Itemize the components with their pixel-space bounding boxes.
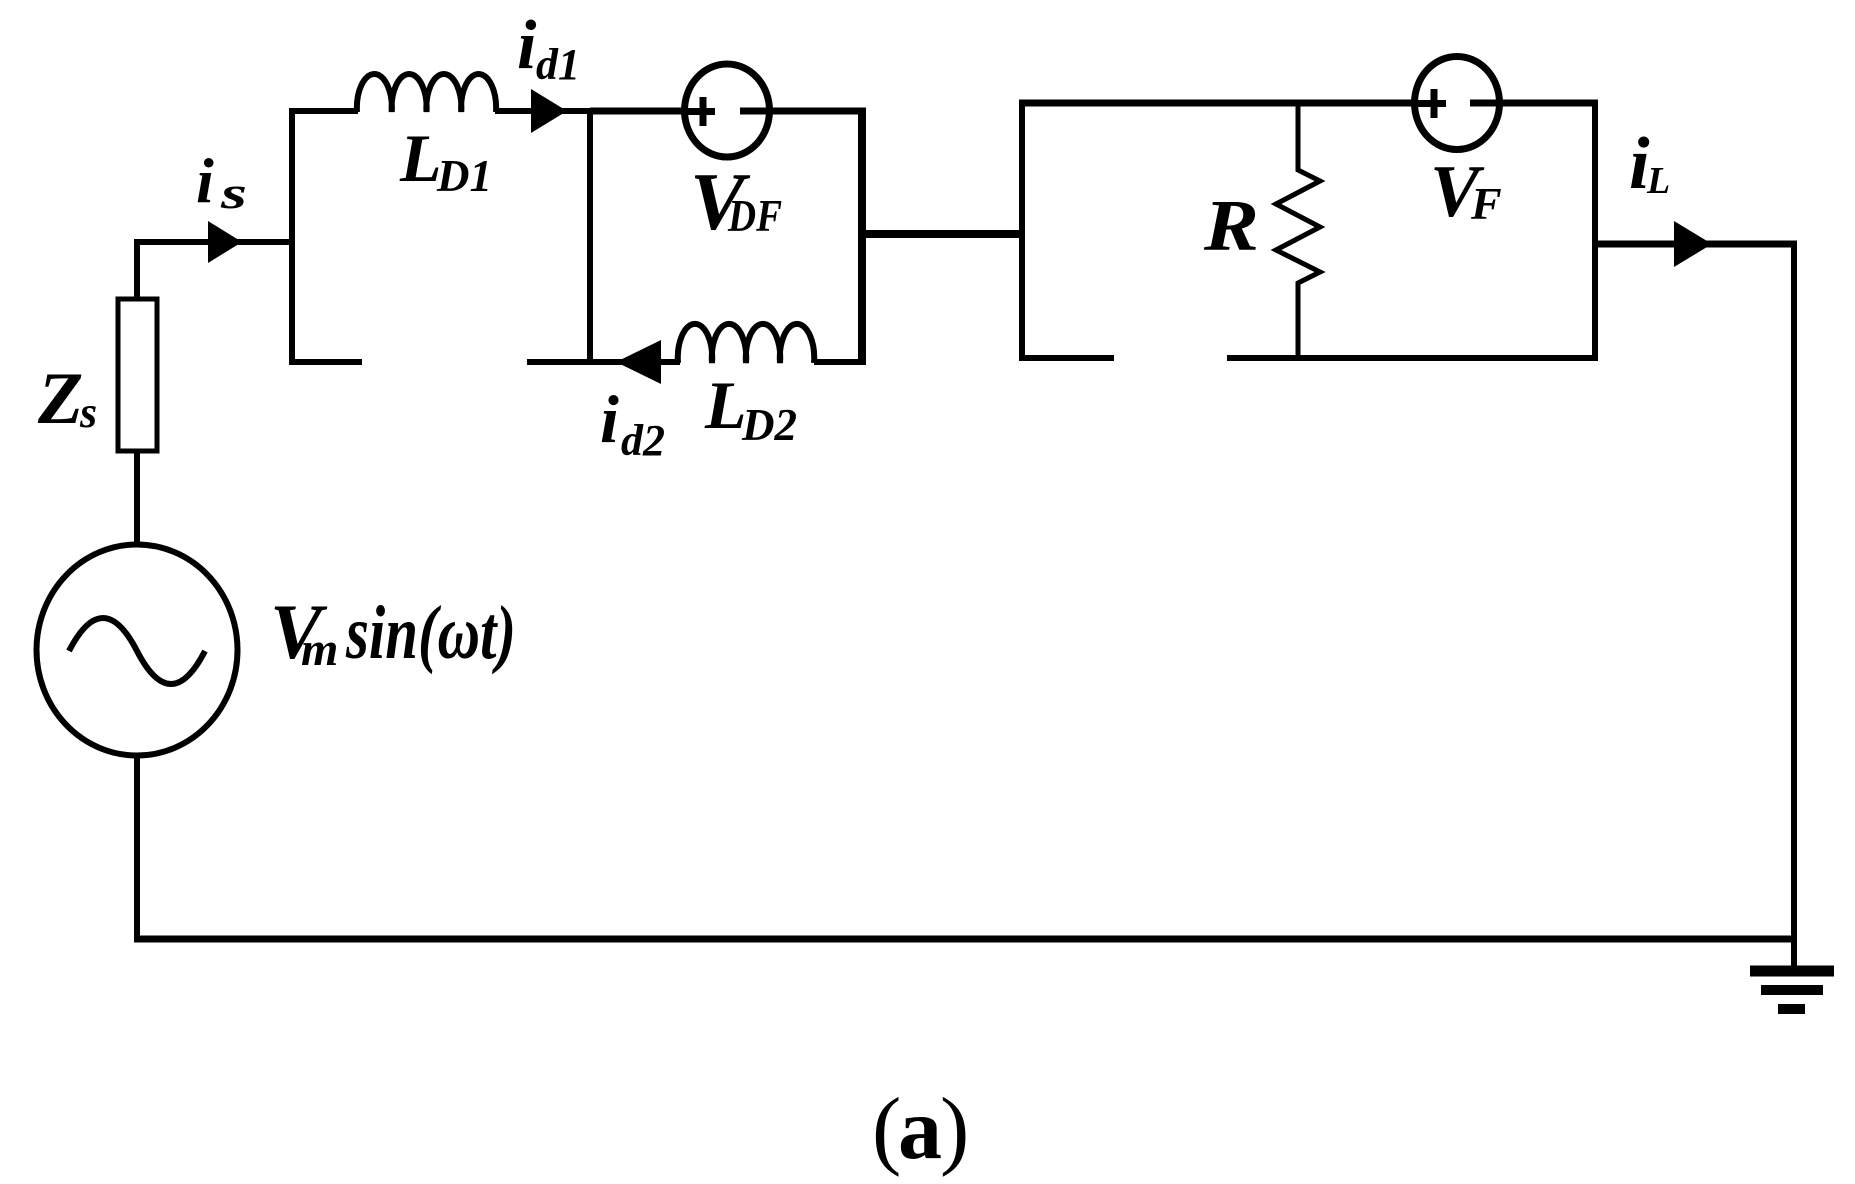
svg-text:i: i <box>600 381 619 457</box>
source Vm circle <box>37 545 238 756</box>
resistor R <box>1276 103 1320 358</box>
arrow id1 <box>531 89 567 133</box>
svg-text:L: L <box>704 367 747 443</box>
svg-text:Z: Z <box>37 358 83 440</box>
wire bottom long <box>134 936 1797 943</box>
svg-text:D2: D2 <box>741 400 797 450</box>
wire LD2 to right vertical <box>814 359 866 365</box>
svg-text:L: L <box>399 120 442 196</box>
wire box2 bottom left segment <box>1019 355 1114 361</box>
minus VDF <box>740 108 770 115</box>
impedance Zs <box>118 299 157 451</box>
svg-text:): ) <box>940 1081 969 1178</box>
inductor LD1 <box>357 74 496 112</box>
wire box2 top <box>1019 100 1598 107</box>
wire VDF top left segment <box>590 108 690 115</box>
source VF <box>1415 57 1500 150</box>
svg-text:(: ( <box>872 1081 901 1178</box>
svg-text:sin(ωt): sin(ωt) <box>345 591 516 675</box>
wire VDF top right segment <box>764 108 866 115</box>
wire right vertical down <box>1791 244 1797 942</box>
source VDF <box>685 64 770 157</box>
minus VF <box>1470 100 1500 107</box>
sine wave <box>69 618 205 684</box>
svg-text:R: R <box>1203 185 1259 266</box>
wire output iL <box>1595 241 1797 248</box>
wire box1 bottom right segment <box>527 359 680 365</box>
svg-text:a: a <box>898 1081 942 1178</box>
inductor LD2 <box>678 324 814 363</box>
svg-text:L: L <box>1646 160 1670 202</box>
arrow is <box>208 221 242 263</box>
ground stub <box>1791 939 1797 966</box>
svg-text:i: i <box>196 145 214 216</box>
wire is horizontal <box>134 239 292 245</box>
plus VDF <box>686 97 715 126</box>
svg-text:d1: d1 <box>536 40 580 89</box>
svg-text:s: s <box>79 388 97 437</box>
arrow id2 <box>616 340 661 384</box>
svg-text:DF: DF <box>727 190 782 241</box>
wire box2 bottom right segment <box>1227 355 1598 361</box>
wire middle connecting <box>862 230 1025 238</box>
wire Zs to source circle <box>134 449 140 552</box>
svg-text:m: m <box>301 623 338 676</box>
svg-text:F: F <box>1470 178 1502 229</box>
wire box2 left vertical <box>1019 100 1025 361</box>
wire box1 top right segment <box>495 108 592 114</box>
wire box2 right vertical <box>1592 100 1598 361</box>
wire box1 top left segment <box>289 108 358 114</box>
node junction vertical <box>587 111 593 365</box>
svg-text:D1: D1 <box>436 151 492 201</box>
wire box1 left vertical <box>289 108 295 365</box>
arrow iL <box>1674 221 1712 267</box>
svg-text:i: i <box>517 7 537 84</box>
wire corner down to Zs <box>134 239 140 301</box>
wire source to bottom <box>134 752 140 942</box>
plus VF <box>1417 89 1446 118</box>
wire box1 bottom left segment <box>289 359 362 365</box>
svg-text:s: s <box>220 167 247 218</box>
wire VDF right vertical <box>858 108 866 365</box>
ground <box>1750 971 1834 1009</box>
svg-text:d2: d2 <box>621 416 665 465</box>
